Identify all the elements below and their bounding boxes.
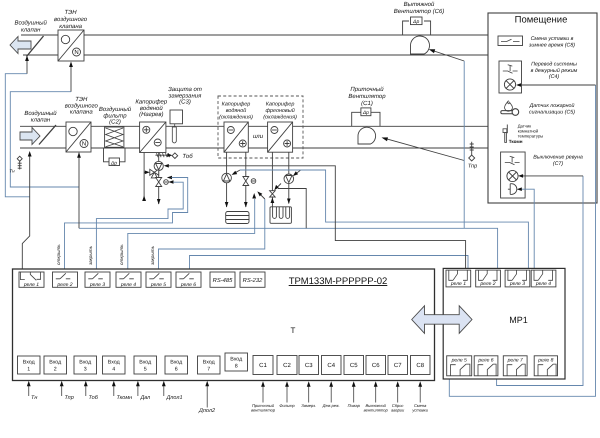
svg-text:Воздушный: Воздушный	[15, 20, 48, 27]
exhaust fan C6	[411, 36, 430, 54]
svg-text:клапан: клапан	[21, 27, 41, 33]
relay 1 (TPM)	[19, 272, 44, 287]
svg-text:6: 6	[175, 367, 178, 373]
fire detector icon C5	[501, 111, 514, 114]
svg-text:(С1): (С1)	[361, 100, 373, 107]
svg-text:Тн: Тн	[9, 169, 15, 174]
wire fans to MP1 relay2	[79, 228, 498, 268]
wire	[20, 147, 488, 149]
C7 lamp	[507, 170, 518, 181]
svg-text:Т: Т	[291, 326, 296, 335]
wire freon pump to MP1 relay3	[240, 170, 528, 268]
room panel	[488, 13, 597, 203]
wire relay5 arrowhead	[259, 193, 265, 199]
Tob diamond	[172, 153, 178, 159]
svg-text:реле 5: реле 5	[451, 357, 467, 363]
svg-text:8: 8	[235, 364, 238, 370]
svg-text:фильтр: фильтр	[103, 112, 127, 119]
svg-text:RS-485: RS-485	[213, 277, 233, 284]
dashed coolers box	[218, 96, 303, 158]
heater left pipe	[143, 153, 145, 201]
wire C7 lamp arrow	[521, 175, 584, 177]
exhaust fan C6 dp bracket	[403, 21, 431, 35]
svg-text:Воздушный: Воздушный	[24, 110, 57, 117]
svg-text:(охлаждения): (охлаждения)	[263, 114, 297, 120]
svg-text:реле 1: реле 1	[23, 282, 39, 288]
heater 2-way valve	[156, 178, 162, 187]
svg-text:(Нагрев): (Нагрев)	[139, 111, 163, 118]
supply fan C1	[358, 127, 376, 144]
svg-text:С8: С8	[416, 362, 424, 369]
svg-text:реле 2: реле 2	[56, 282, 72, 288]
wire MP1 relay1 to heater pump	[168, 166, 466, 268]
svg-text:(С3): (С3)	[179, 99, 191, 106]
Tpr duct sensor	[470, 142, 474, 155]
Tob capillary	[155, 153, 171, 157]
svg-text:клапана: клапана	[70, 110, 93, 116]
svg-text:Замерз.: Замерз.	[301, 403, 316, 408]
svg-text:Вход: Вход	[23, 360, 35, 366]
wire supply TEN down	[78, 153, 80, 229]
svg-text:(С2): (С2)	[109, 119, 121, 126]
svg-text:водяной: водяной	[226, 108, 247, 114]
wire exhaust TEN to left bundle	[10, 92, 79, 187]
supply fan C1 dp box	[361, 108, 371, 116]
svg-text:открыть: открыть	[119, 244, 124, 265]
wire	[20, 125, 488, 127]
cooler1 pump arrow	[235, 170, 241, 173]
freeze protection capillary	[172, 124, 176, 143]
svg-text:Воздушный: Воздушный	[99, 106, 132, 113]
svg-text:клапана: клапана	[59, 24, 82, 30]
horn arrowhead	[517, 187, 522, 191]
exhaust fan C6 dp box	[411, 17, 423, 25]
svg-text:Вход: Вход	[49, 360, 61, 366]
svg-text:реле 3: реле 3	[509, 281, 525, 287]
svg-text:температуры: температуры	[518, 134, 544, 139]
exhaust air valve blade	[27, 36, 44, 57]
relay 3 (TPM)	[85, 272, 110, 287]
TPM133M controller box	[13, 269, 435, 381]
wire C4 lamp arrow	[519, 84, 596, 86]
svg-text:7: 7	[207, 367, 210, 373]
svg-text:Тпр: Тпр	[65, 395, 74, 401]
svg-text:ТЭН: ТЭН	[75, 96, 88, 103]
TEN exhaust actuator arrow	[70, 66, 72, 92]
svg-text:Смена уставки в: Смена уставки в	[531, 36, 574, 42]
supply fan C1 dp bracket	[352, 112, 380, 126]
svg-text:или: или	[253, 134, 264, 140]
svg-text:N: N	[82, 141, 86, 148]
wire relay4 to cooler1 valve	[128, 199, 255, 271]
svg-text:клапан: клапан	[31, 118, 51, 124]
C arrows C1-C8	[262, 385, 264, 403]
svg-text:С1: С1	[259, 362, 267, 369]
svg-text:С3: С3	[305, 362, 313, 369]
freon pump arrow	[295, 170, 300, 174]
svg-text:С6: С6	[372, 362, 380, 369]
svg-text:реле 6: реле 6	[180, 282, 196, 288]
room temperature sensor icon	[506, 125, 508, 134]
svg-text:Вход: Вход	[139, 360, 151, 366]
svg-text:реле 8: реле 8	[537, 357, 553, 363]
svg-text:замерзания: замерзания	[168, 93, 202, 99]
wire supply valve to relay1	[22, 154, 29, 272]
svg-text:зимнее время (С8): зимнее время (С8)	[528, 42, 575, 48]
svg-text:реле 2: реле 2	[479, 281, 495, 287]
svg-text:Вход: Вход	[170, 360, 182, 366]
svg-text:Дпол2: Дпол2	[198, 408, 215, 414]
cooler1 left pipe	[226, 152, 228, 207]
svg-text:Капорифер: Капорифер	[222, 102, 251, 108]
svg-text:N: N	[74, 49, 78, 56]
svg-text:реле 4: реле 4	[535, 281, 551, 287]
cooler1 pump	[222, 173, 232, 183]
C4 lamp	[504, 79, 515, 90]
svg-text:ТЭН: ТЭН	[65, 9, 78, 16]
svg-text:Деж.реж.: Деж.реж.	[322, 403, 340, 408]
freeze protection C3 box	[170, 110, 183, 124]
filter dp box	[109, 158, 120, 166]
relay 6 (TPM)	[176, 272, 201, 287]
RS-485 box	[210, 272, 235, 287]
TEN exhaust box	[58, 30, 84, 61]
buffer tank	[226, 212, 249, 224]
wire freon valve branch	[278, 189, 306, 229]
svg-text:3: 3	[84, 367, 87, 373]
supply air valve block arrow	[20, 128, 40, 145]
svg-text:(С7): (С7)	[553, 161, 564, 167]
MP1 box	[443, 268, 565, 379]
svg-text:2: 2	[54, 367, 57, 373]
svg-text:закрыть: закрыть	[88, 245, 93, 266]
relay 2 (TPM)	[53, 272, 78, 287]
freon valve	[270, 191, 276, 197]
air filter C2 box	[105, 127, 124, 147]
heater valve arrow 2	[167, 176, 172, 180]
C7 horn box	[501, 152, 525, 198]
relay 5 (TPM)	[146, 272, 171, 287]
svg-text:ТРМ133М-РРРРРР-02: ТРМ133М-РРРРРР-02	[289, 276, 388, 287]
cooler1 valve actuator	[251, 179, 256, 184]
svg-text:Δp: Δp	[362, 110, 369, 116]
svg-text:Вентилятор: Вентилятор	[348, 93, 386, 100]
svg-text:Капорифер: Капорифер	[266, 102, 295, 108]
C8 setpoint switch box	[498, 36, 523, 46]
freon cooler right pipe	[288, 152, 290, 203]
svg-text:в дежурный режим: в дежурный режим	[531, 68, 578, 74]
svg-text:реле 5: реле 5	[150, 282, 166, 288]
MP1 relay 1	[446, 270, 471, 287]
wire relay5 to freon valve	[159, 199, 265, 271]
exhaust air valve block arrow	[10, 37, 31, 54]
Tn outdoor sensor	[18, 161, 22, 170]
input arrows Tn..Dpol2	[28, 384, 30, 396]
svg-text:Выключение ревуна: Выключение ревуна	[533, 155, 583, 161]
svg-text:(С4): (С4)	[549, 74, 560, 80]
arrow to exhaust fan	[433, 51, 465, 62]
svg-text:Приточный: Приточный	[350, 86, 384, 93]
svg-text:Двл: Двл	[140, 395, 151, 401]
svg-text:Датчик пожарной: Датчик пожарной	[529, 103, 575, 109]
svg-text:Вход: Вход	[79, 360, 91, 366]
wire relay2 to heater valve top	[65, 178, 188, 272]
heater right pipe	[158, 153, 160, 205]
svg-text:открыть: открыть	[56, 244, 61, 265]
svg-text:Помещение: Помещение	[515, 15, 568, 26]
svg-text:вентилятор: вентилятор	[364, 408, 389, 413]
svg-text:реле 1: реле 1	[450, 281, 466, 287]
freon cooler left pipe	[271, 152, 273, 206]
MP1 relay 3	[505, 270, 530, 287]
C7 horn	[508, 184, 517, 195]
svg-text:Вход: Вход	[230, 357, 242, 363]
svg-text:водяной: водяной	[140, 105, 163, 112]
supply air valve blade	[39, 125, 56, 145]
heater 3-way valve arrow	[145, 171, 148, 173]
svg-text:Ткомн: Ткомн	[509, 139, 523, 144]
C4 standby switch box	[499, 61, 522, 93]
svg-text:Тоб: Тоб	[89, 394, 99, 401]
svg-text:вентилятор: вентилятор	[251, 408, 276, 413]
freon cooler box	[268, 122, 293, 152]
svg-text:Защита от: Защита от	[168, 86, 202, 93]
svg-text:Вентилятор (С6): Вентилятор (С6)	[394, 8, 445, 15]
svg-text:(охлаждения): (охлаждения)	[219, 114, 253, 120]
condenser coil	[270, 207, 291, 224]
svg-text:реле 4: реле 4	[120, 282, 136, 288]
water heater box	[140, 122, 166, 153]
wire exhaust valve to left bundle	[5, 74, 29, 197]
MP1 relay 6	[474, 356, 498, 376]
heater pump	[154, 161, 163, 170]
heater valve actuator	[164, 180, 169, 185]
MP1 relay 5	[447, 356, 472, 376]
filter dp bracket	[104, 148, 126, 162]
MP1 relay 7	[503, 356, 527, 376]
svg-text:Тпр: Тпр	[468, 164, 477, 170]
svg-text:Пожар: Пожар	[348, 403, 361, 408]
svg-text:сигнализации (С5): сигнализации (С5)	[529, 109, 575, 115]
cooler1 valve	[243, 177, 249, 186]
MP1 relay 4	[531, 270, 556, 287]
wire relay6 to MP1 relay1	[190, 256, 469, 272]
relay 4 (TPM)	[116, 272, 141, 287]
svg-text:реле 6: реле 6	[477, 357, 493, 363]
exhaust valve actuator arrow	[26, 60, 28, 74]
svg-text:закрыть: закрыть	[150, 245, 155, 266]
MP1 relay 2	[476, 270, 501, 287]
svg-text:Вытяжной: Вытяжной	[404, 1, 435, 8]
input boxes Vhod 1-8	[18, 356, 41, 374]
svg-text:воздушного: воздушного	[54, 16, 88, 23]
arrow to supply fan	[386, 139, 465, 161]
svg-text:Вход: Вход	[203, 360, 215, 366]
wire relay3 to heater 2-way valve	[96, 182, 183, 271]
svg-text:Δp: Δp	[412, 19, 419, 25]
wire fan riser	[463, 61, 465, 228]
C boxes C1-C8	[253, 356, 273, 375]
cooler1 right pipe	[245, 152, 247, 207]
svg-text:реле 7: реле 7	[507, 357, 523, 363]
svg-text:Ткомн: Ткомн	[117, 395, 133, 401]
TPM-MP1 exchange double arrow	[412, 306, 472, 334]
svg-text:аварии: аварии	[391, 408, 405, 413]
svg-text:Вход: Вход	[108, 360, 120, 366]
wire	[23, 54, 488, 56]
freon valve arrow	[276, 184, 281, 189]
svg-text:Дпол1: Дпол1	[166, 395, 183, 401]
svg-text:Тн: Тн	[31, 395, 37, 401]
svg-text:Фильтр: Фильтр	[279, 403, 295, 408]
wire relay4 arrowhead	[252, 193, 256, 199]
RS-232 box	[240, 272, 265, 287]
MP1 relay 8	[534, 356, 557, 376]
svg-text:МР1: МР1	[509, 315, 528, 325]
svg-text:Перевод системы: Перевод системы	[531, 62, 577, 68]
heater valve arrow	[168, 180, 173, 184]
svg-text:С5: С5	[350, 362, 358, 369]
wire C7 horn to MP1 relay4	[520, 189, 535, 268]
wire C4 lamp down right edge to MP1 relay5	[449, 85, 595, 396]
svg-text:фреоновый: фреоновый	[265, 108, 294, 114]
wire C7 lamp down to MP1 relay6	[497, 176, 583, 386]
svg-text:RS-232: RS-232	[243, 277, 263, 284]
freon pump	[284, 174, 294, 184]
svg-text:Капорифер: Капорифер	[135, 99, 168, 106]
wire	[21, 34, 488, 36]
svg-text:5: 5	[144, 367, 147, 373]
svg-text:уставки: уставки	[411, 408, 428, 413]
svg-text:воздушного: воздушного	[65, 102, 99, 109]
svg-text:4: 4	[112, 367, 115, 373]
svg-text:Тоб: Тоб	[182, 153, 193, 160]
svg-text:1: 1	[27, 367, 30, 373]
Tob arrow	[167, 153, 172, 157]
svg-text:реле 3: реле 3	[89, 282, 105, 288]
svg-text:Δp: Δp	[110, 161, 117, 167]
water cooler box	[224, 122, 248, 152]
svg-text:С4: С4	[327, 362, 335, 369]
svg-text:С7: С7	[394, 362, 402, 369]
svg-text:С2: С2	[283, 362, 291, 369]
TEN supply box	[66, 122, 91, 152]
heater 3-way valve	[150, 169, 159, 178]
